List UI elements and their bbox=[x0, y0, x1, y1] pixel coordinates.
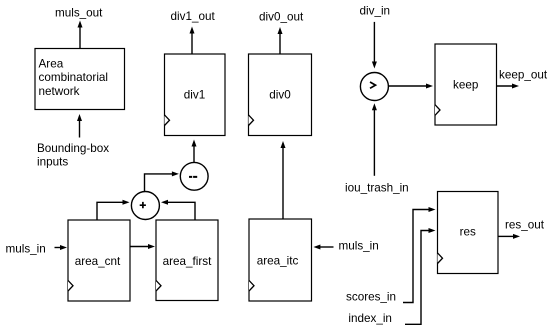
wire Bounding-box inputs to Area network bbox=[77, 114, 82, 138]
wire comparator to keep bbox=[389, 84, 434, 89]
svg-text:res: res bbox=[460, 226, 476, 239]
svg-text:inputs: inputs bbox=[37, 155, 68, 168]
svg-text:area_itc: area_itc bbox=[257, 255, 299, 268]
svg-text:index_in: index_in bbox=[348, 312, 392, 325]
wire muls_out bbox=[78, 21, 83, 49]
clock chevron area_first bbox=[156, 280, 161, 291]
clock chevron div1 bbox=[165, 115, 170, 126]
wire div_in to comparator bbox=[372, 22, 377, 69]
svg-text:div1_out: div1_out bbox=[171, 10, 216, 23]
block area_first bbox=[156, 220, 218, 301]
clock chevron div0 bbox=[249, 115, 254, 126]
block res bbox=[438, 192, 499, 274]
svg-text:area_first: area_first bbox=[163, 255, 212, 268]
wire area_cnt to adder bbox=[97, 200, 130, 220]
label Bounding-box inputs bbox=[37, 142, 109, 168]
wire index_in to res bbox=[405, 228, 436, 324]
svg-text:div0_out: div0_out bbox=[259, 10, 304, 23]
svg-text:div1: div1 bbox=[184, 89, 205, 102]
clock chevron area_cnt bbox=[68, 280, 73, 291]
wire muls_in to area_cnt bbox=[55, 245, 68, 250]
clock chevron area_itc bbox=[249, 280, 254, 291]
svg-text:muls_out: muls_out bbox=[55, 7, 103, 20]
block keep bbox=[435, 44, 497, 125]
svg-text:scores_in: scores_in bbox=[346, 290, 396, 303]
comparator circle > bbox=[360, 73, 388, 101]
svg-text:keep_out: keep_out bbox=[499, 68, 548, 81]
svg-text:keep: keep bbox=[453, 78, 479, 91]
wire res_out bbox=[498, 234, 520, 239]
wire area_itc to div0 bbox=[281, 141, 286, 219]
svg-text:div_in: div_in bbox=[360, 4, 391, 17]
op-amp subtract circle - bbox=[180, 162, 208, 190]
svg-text:muls_in: muls_in bbox=[339, 240, 379, 253]
svg-text:res_out: res_out bbox=[505, 219, 545, 232]
wire area_cnt to area_first bbox=[130, 244, 155, 249]
op-amp adder circle + bbox=[131, 192, 159, 220]
svg-text:Bounding-box: Bounding-box bbox=[37, 142, 109, 155]
wire keep_out bbox=[497, 84, 520, 89]
wire muls_in to area_itc bbox=[313, 245, 333, 250]
wire div1_out bbox=[190, 27, 195, 55]
block area_cnt bbox=[68, 220, 130, 301]
wire div0_out bbox=[278, 27, 283, 54]
wire adder to subtractor bbox=[145, 171, 179, 191]
clock chevron keep bbox=[435, 105, 440, 116]
svg-text:iou_trash_in: iou_trash_in bbox=[345, 182, 409, 195]
svg-text:Area: Area bbox=[39, 57, 64, 70]
svg-text:area_cnt: area_cnt bbox=[75, 255, 121, 268]
block div1 bbox=[165, 54, 226, 136]
block area_itc bbox=[249, 219, 312, 301]
wire iou_trash_in to comparator bbox=[372, 103, 377, 176]
svg-text:network: network bbox=[39, 85, 80, 98]
clock chevron res bbox=[438, 253, 443, 264]
wire subtractor to div1 bbox=[192, 140, 197, 163]
block div0 bbox=[249, 54, 312, 136]
svg-text:muls_in: muls_in bbox=[6, 242, 46, 255]
block Area combinatorial network bbox=[35, 49, 125, 110]
wire scores_in to res bbox=[403, 207, 436, 303]
svg-text:div0: div0 bbox=[269, 89, 291, 102]
svg-text:combinatorial: combinatorial bbox=[39, 71, 109, 84]
wire area_first to adder bbox=[161, 200, 195, 220]
